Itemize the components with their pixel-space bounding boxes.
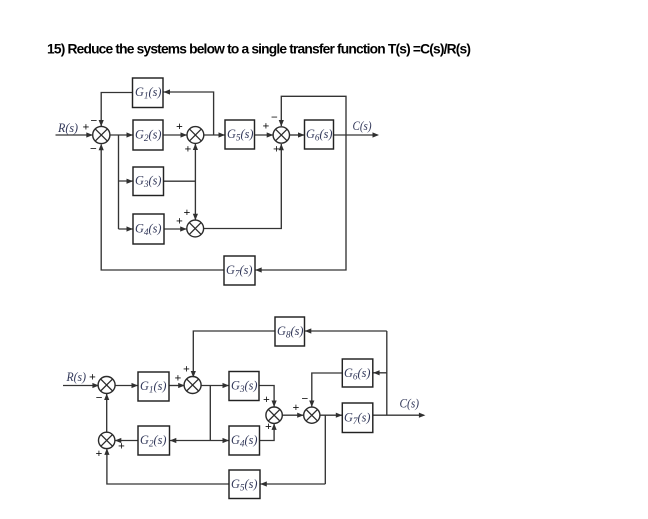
- wire tap to G1 input: [164, 92, 214, 135]
- svg-text:+: +: [263, 392, 270, 406]
- signs summer SD: [293, 392, 309, 415]
- svg-text:−: −: [271, 110, 278, 124]
- wire G5 output into SE bottom: [107, 449, 229, 484]
- wire S4 to G6: [290, 134, 305, 136]
- svg-text:+: +: [265, 419, 272, 433]
- block G5: [225, 120, 255, 149]
- wire G1 feedback into S1 top: [101, 93, 132, 127]
- signs summer S1: [83, 114, 98, 156]
- summer S3: [187, 220, 204, 237]
- block G8 bottom: [275, 317, 305, 346]
- wire R(s) into summer S1: [56, 134, 93, 136]
- wire S1 output to G2: [110, 134, 133, 136]
- block G3: [133, 167, 164, 196]
- svg-text:+: +: [89, 370, 96, 384]
- arrow into S2 bottom: [193, 144, 198, 151]
- summer SB: [184, 377, 201, 394]
- arrow into S2 left: [181, 132, 188, 137]
- wire SA to G1: [115, 385, 138, 387]
- svg-text:+: +: [175, 371, 182, 385]
- svg-text:R(s): R(s): [66, 370, 86, 384]
- signs summer S3: [176, 205, 191, 228]
- svg-text:−: −: [96, 391, 103, 405]
- svg-text:−: −: [302, 392, 309, 406]
- summer SA: [98, 377, 115, 394]
- signs summer SE: [96, 439, 126, 461]
- wire outer loop down to G7: [256, 135, 347, 270]
- arrow into S4 left: [267, 132, 274, 137]
- arrow into SC bottom: [272, 423, 277, 430]
- arrow C(s) output bottom: [419, 413, 426, 418]
- wire R(s) into summer SA: [63, 385, 98, 387]
- arrow into SB left: [178, 383, 185, 388]
- block G1: [133, 78, 164, 108]
- wire G8 output into SB top: [193, 331, 275, 377]
- arrow into S1 top: [99, 120, 104, 127]
- wire feedback vertical up to G6 and G8: [305, 331, 387, 415]
- arrow into G4: [127, 226, 134, 231]
- wire G3 output up into S2 and down into S3: [164, 144, 196, 220]
- wire G1 to SB: [169, 385, 184, 387]
- arrow into G6b right side: [373, 370, 380, 375]
- svg-text:−: −: [90, 142, 97, 156]
- arrow into G8b right side: [305, 328, 312, 333]
- arrow into S4 bottom: [279, 144, 284, 151]
- block G4 bottom: [229, 426, 260, 455]
- arrow into G4b left side: [223, 438, 230, 443]
- wire G2 output into SE right: [115, 440, 138, 442]
- block G6: [305, 120, 334, 149]
- signs summer SC: [263, 392, 272, 433]
- summer S2: [187, 127, 204, 144]
- signs summer SB: [175, 362, 191, 385]
- arrow into SA bottom: [104, 394, 109, 401]
- arrow C(s) output: [373, 132, 380, 137]
- signs summer S4: [263, 110, 281, 156]
- wire S3 output up into S4 bottom: [204, 144, 282, 229]
- arrow into G1b: [132, 383, 139, 388]
- svg-text:C(s): C(s): [400, 397, 420, 411]
- svg-text:+: +: [293, 400, 300, 414]
- block G7: [224, 256, 255, 285]
- arrowheads top diagram: [86, 89, 379, 272]
- svg-text:+: +: [183, 362, 190, 376]
- arrow into G1 right side: [164, 89, 171, 94]
- arrow into G2: [127, 132, 134, 137]
- wire SC to SD: [282, 414, 303, 416]
- block G6 bottom: [342, 359, 373, 387]
- arrow into S4 top: [279, 120, 284, 127]
- arrow into G5: [219, 132, 226, 137]
- summer S4: [273, 127, 289, 143]
- svg-text:R(s): R(s): [57, 121, 78, 135]
- wire G6 feedback loop into S4 top: [281, 96, 346, 135]
- block G4: [133, 214, 164, 244]
- svg-text:C(s): C(s): [353, 119, 372, 133]
- wire G3 output into SC top: [259, 386, 274, 407]
- arrow into G3: [127, 179, 134, 184]
- arrow into SD left: [297, 413, 304, 418]
- svg-text:+: +: [273, 142, 280, 156]
- wire S2 to G5: [204, 134, 225, 136]
- arrow into S1 left: [86, 132, 93, 137]
- arrow into G3b: [223, 383, 230, 388]
- summer SC: [266, 407, 282, 423]
- svg-text:15) Reduce the systems below t: 15) Reduce the systems below to a single…: [47, 42, 471, 57]
- wire G6 output to C(s): [334, 134, 378, 136]
- svg-text:−: −: [91, 114, 98, 128]
- arrow into SE bottom: [104, 448, 109, 455]
- wire SB to G3 with tap down to G2 and G4: [170, 386, 229, 441]
- arrow into S3 left: [180, 226, 187, 231]
- block G7 bottom: [342, 403, 373, 433]
- svg-text:+: +: [176, 119, 183, 133]
- svg-text:+: +: [176, 214, 183, 228]
- summer SD: [304, 407, 320, 423]
- wire SD to G7 with tap down to G5: [261, 415, 343, 484]
- arrow into G6: [298, 132, 305, 137]
- block G2: [133, 120, 163, 150]
- summer SE: [99, 432, 115, 448]
- arrow into SD top: [309, 401, 314, 408]
- block G2 bottom: [138, 426, 170, 455]
- wire G6 output into SD top: [312, 373, 343, 407]
- signs summer SA: [89, 370, 103, 405]
- arrow into G7b: [336, 413, 343, 418]
- block G3 bottom: [229, 372, 259, 401]
- svg-text:+: +: [83, 120, 90, 134]
- arrow into S1 bottom: [99, 144, 104, 151]
- wire tap down to G3 and G4: [119, 135, 134, 229]
- arrow into S3 top: [193, 214, 198, 221]
- svg-text:+: +: [185, 142, 192, 156]
- wire G7 feedback into S1 bottom: [101, 145, 224, 271]
- summer S1: [93, 126, 110, 143]
- arrow into SB top: [191, 371, 196, 378]
- wire G7 output to C(s): [373, 414, 424, 416]
- block G1 bottom: [138, 372, 169, 401]
- svg-text:+: +: [263, 119, 270, 133]
- wire SE up into SA bottom: [106, 394, 108, 432]
- wire G2 to S2: [163, 134, 187, 136]
- svg-text:+: +: [118, 439, 125, 453]
- arrow into G7 right side: [255, 267, 262, 272]
- svg-text:+: +: [96, 446, 103, 460]
- wire G4 to S3: [164, 228, 187, 230]
- block G5 bottom: [229, 470, 260, 499]
- wire G4 output into SC bottom: [260, 424, 275, 441]
- arrowheads bottom diagram: [92, 328, 425, 486]
- arrow into SC top: [272, 401, 277, 408]
- svg-text:+: +: [184, 205, 191, 219]
- signs summer S2: [176, 119, 192, 156]
- arrow into G2b right side: [170, 438, 177, 443]
- wire G5 to S4: [255, 134, 273, 136]
- arrow into SE right side: [115, 438, 122, 443]
- arrow into G5b right side: [260, 481, 267, 486]
- arrow into SA left: [92, 383, 99, 388]
